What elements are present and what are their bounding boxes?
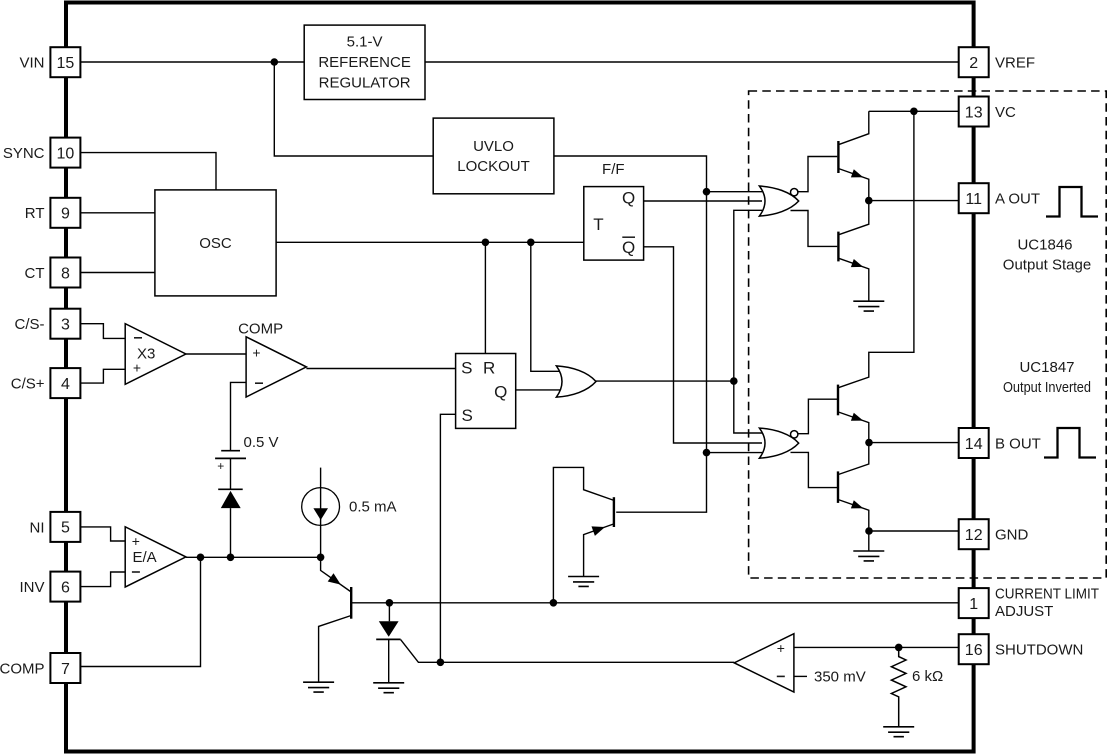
block 5.1-V reference regulator — [304, 25, 425, 99]
wire reference regulator to VREF pin — [425, 61, 959, 63]
wire VIN junction to UVLO — [274, 62, 433, 156]
pin 9 RT — [25, 198, 81, 228]
wire flip-flop Qbar to lower NOR — [644, 247, 762, 443]
ground discharge transistor — [568, 577, 599, 587]
wire X3 pin C/S+ — [80, 369, 125, 383]
svg-text:B OUT: B OUT — [995, 435, 1041, 452]
wire GND — [869, 530, 959, 532]
A OUT waveform — [1046, 187, 1098, 217]
dashed output stage box — [749, 91, 1107, 578]
svg-text:2: 2 — [969, 55, 978, 72]
wire shutdown comparator output line — [401, 640, 735, 663]
pin 16 SHUTDOWN — [959, 634, 1084, 664]
junction dots — [271, 58, 279, 66]
battery 0.5 V — [215, 451, 246, 459]
wire A OUT — [869, 200, 959, 202]
latch S R Q S — [456, 354, 516, 429]
wire OSC line to latch R input — [484, 242, 486, 353]
svg-text:OSC: OSC — [199, 235, 232, 252]
svg-text:1: 1 — [969, 596, 978, 613]
svg-text:T: T — [593, 215, 603, 234]
svg-text:C/S+: C/S+ — [11, 376, 45, 393]
wire diode D2 cathode to ground — [388, 639, 390, 682]
svg-text:NI: NI — [30, 519, 45, 536]
svg-text:+: + — [217, 459, 224, 473]
svg-text:16: 16 — [965, 642, 983, 659]
svg-text:7: 7 — [61, 661, 70, 678]
NOR gate A drive U3 — [759, 186, 798, 216]
svg-text:+: + — [132, 533, 140, 549]
pin 11 A OUT — [959, 183, 1040, 213]
wire X3 output to comparator — [186, 353, 246, 355]
svg-text:15: 15 — [57, 55, 75, 72]
wire VIN to reference regulator — [80, 61, 304, 63]
pin 10 SYNC — [3, 138, 81, 168]
wire latch lower S to shutdown line — [440, 414, 455, 662]
wire X3 pin C/S- — [80, 324, 125, 339]
pin 15 VIN — [19, 47, 80, 77]
svg-text:R: R — [483, 359, 495, 378]
pin 2 VREF — [959, 47, 1035, 77]
wire VC rail — [869, 110, 959, 112]
svg-text:+: + — [777, 640, 785, 656]
pin 12 GND — [959, 519, 1029, 549]
svg-text:8: 8 — [61, 265, 70, 282]
pin 14 B OUT — [959, 428, 1041, 458]
svg-text:VIN: VIN — [19, 55, 44, 72]
wire B OUT — [869, 442, 959, 444]
block UVLO lockout — [433, 118, 554, 194]
wire UVLO branch to upper NOR input — [707, 191, 763, 193]
pin 13 VC — [959, 97, 1016, 127]
wire OR gate output to NOR gates — [596, 210, 762, 433]
svg-text:3: 3 — [61, 317, 70, 334]
wire diode D2 anode — [388, 603, 390, 622]
wire current limit adjust line — [351, 602, 959, 604]
diode D1 — [221, 491, 241, 508]
svg-text:VREF: VREF — [995, 55, 1035, 72]
svg-text:14: 14 — [965, 436, 983, 453]
NOR gate B drive U4 — [759, 428, 798, 458]
shutdown comparator — [734, 634, 794, 692]
svg-text:Output Stage: Output Stage — [1003, 256, 1091, 273]
wire upper NOR output to Q1 base — [797, 157, 837, 192]
svg-text:Output Inverted: Output Inverted — [1003, 379, 1091, 396]
wire RT to OSC — [80, 212, 154, 214]
wire NI pin to E/A — [80, 527, 125, 541]
wire comparator to latch S input — [306, 368, 455, 370]
pin 4 C/S+ — [11, 368, 81, 398]
wire lower NOR tap to Q4 base — [791, 452, 838, 487]
wire UVLO branch to lower NOR input — [707, 452, 763, 454]
svg-text:0.5 mA: 0.5 mA — [349, 498, 397, 515]
svg-text:6: 6 — [61, 579, 70, 596]
ground diode D2 — [373, 683, 404, 693]
svg-text:VC: VC — [995, 104, 1016, 121]
transistor Q3 — [837, 385, 839, 416]
wire flip-flop Q to upper NOR — [644, 200, 762, 202]
svg-text:INV: INV — [19, 579, 44, 596]
svg-text:Q: Q — [622, 188, 635, 207]
svg-text:SYNC: SYNC — [3, 145, 45, 162]
wire E/A feedback to COMP pin — [80, 557, 200, 666]
ground upper output stage — [853, 301, 884, 311]
wire E/A output node line — [186, 556, 321, 558]
wire Q4 emitter to ground — [868, 531, 870, 551]
svg-text:REFERENCE: REFERENCE — [318, 54, 411, 71]
svg-text:350 mV: 350 mV — [814, 669, 866, 686]
svg-text:E/A: E/A — [133, 549, 157, 566]
flip-flop F/F — [584, 161, 644, 260]
diode D2 — [379, 621, 399, 637]
wire comparator minus to battery — [231, 382, 247, 450]
svg-text:A OUT: A OUT — [995, 191, 1040, 208]
error amplifier E/A — [125, 527, 186, 587]
transistor Q6 at error amp — [350, 587, 352, 619]
pin 1 CURRENT LIMIT ADJUST — [959, 586, 1099, 620]
svg-text:S: S — [461, 359, 472, 378]
svg-text:CURRENT LIMIT: CURRENT LIMIT — [995, 586, 1099, 603]
svg-text:COMP: COMP — [0, 660, 45, 677]
svg-text:+: + — [252, 344, 260, 360]
svg-text:10: 10 — [57, 145, 75, 162]
wire CT to OSC — [80, 272, 154, 274]
pin 6 INV — [19, 572, 80, 602]
pin 8 CT — [25, 258, 81, 288]
svg-text:4: 4 — [61, 376, 70, 393]
svg-text:GND: GND — [995, 527, 1029, 544]
wire shutdown comparator plus input to SHUTDOWN pin — [794, 646, 959, 648]
svg-text:F/F: F/F — [602, 161, 625, 178]
svg-text:S: S — [462, 406, 473, 425]
block OSC — [155, 190, 276, 296]
OR gate PWM — [556, 366, 596, 397]
ground lower output stage — [853, 551, 884, 561]
svg-text:0.5 V: 0.5 V — [244, 434, 279, 451]
svg-text:5.1-V: 5.1-V — [347, 33, 383, 50]
wire shutdown comparator minus stub — [794, 675, 807, 677]
wire lower NOR output to Q3 base — [798, 399, 838, 434]
svg-text:SHUTDOWN: SHUTDOWN — [995, 642, 1083, 659]
wire SYNC to OSC — [80, 153, 216, 190]
svg-text:9: 9 — [61, 206, 70, 223]
resistor 6 kOhm — [891, 647, 906, 726]
B OUT waveform — [1044, 428, 1096, 458]
wire latch Q to OR gate — [516, 389, 560, 391]
pin 7 COMP — [0, 653, 80, 683]
ground resistor — [883, 727, 914, 737]
svg-text:Q: Q — [622, 238, 635, 257]
svg-text:LOCKOUT: LOCKOUT — [457, 158, 530, 175]
wire OSC line to OR gate input — [531, 242, 560, 371]
wire UVLO to NOR gates and discharge transistor base — [554, 156, 707, 512]
pin 5 NI — [30, 512, 81, 542]
wire current source stub — [320, 468, 322, 558]
discharge transistor Q5 — [613, 497, 615, 527]
svg-text:UC1846: UC1846 — [1017, 236, 1072, 253]
wire OSC to flip-flop T input — [276, 241, 584, 243]
wire upper NOR tap to Q2 base — [791, 211, 838, 247]
svg-text:RT: RT — [25, 205, 45, 222]
svg-text:Q: Q — [494, 382, 507, 401]
amplifier X3 current sense — [125, 324, 186, 385]
transistor Q4 — [837, 471, 839, 503]
svg-text:11: 11 — [965, 191, 982, 208]
svg-text:+: + — [133, 360, 141, 376]
svg-text:COMP: COMP — [238, 321, 283, 338]
pin 3 C/S- — [15, 309, 81, 339]
svg-text:C/S-: C/S- — [15, 316, 45, 333]
svg-text:13: 13 — [965, 104, 983, 121]
svg-text:12: 12 — [965, 527, 983, 544]
svg-text:ADJUST: ADJUST — [995, 603, 1053, 620]
svg-text:UC1847: UC1847 — [1019, 359, 1074, 376]
svg-text:CT: CT — [25, 265, 45, 282]
ground Q6 collector — [303, 682, 334, 692]
transistor Q2 — [837, 232, 839, 262]
svg-text:UVLO: UVLO — [473, 138, 514, 155]
wire INV pin to E/A — [80, 572, 125, 587]
svg-text:5: 5 — [61, 520, 70, 537]
current source 0.5 mA — [302, 488, 340, 526]
transistor Q1 — [837, 141, 839, 173]
wire battery to diode to error amp node — [230, 458, 232, 557]
svg-text:REGULATOR: REGULATOR — [319, 74, 411, 91]
svg-text:6 kΩ: 6 kΩ — [912, 668, 943, 685]
